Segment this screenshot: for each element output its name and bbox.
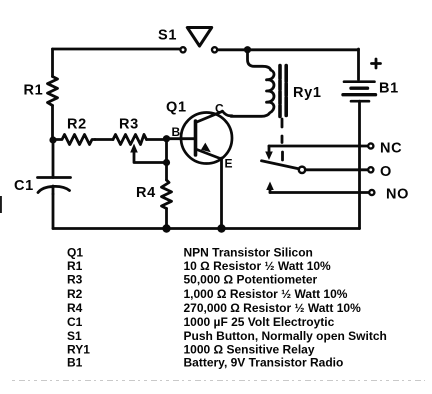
svg-text:O: O [380, 164, 392, 180]
terminal circle NC [368, 143, 373, 148]
node wiper junction [163, 159, 170, 166]
relay armature lever [262, 161, 299, 169]
svg-text:1000 µF 25 Volt Electroytic: 1000 µF 25 Volt Electroytic [184, 315, 335, 329]
relay RY1 core bar right [284, 66, 288, 119]
terminal circle NO [369, 190, 374, 195]
wire left rail mid [51, 106, 54, 141]
wire O common line [306, 168, 368, 171]
svg-text:B1: B1 [379, 81, 399, 97]
switch S1 contact circle right [212, 47, 217, 52]
scan artifact dashed line [12, 380, 425, 382]
svg-text:NO: NO [386, 187, 409, 203]
wire R4 to bottom rail [165, 209, 168, 229]
potentiometer R3 wiper arrowhead [130, 144, 138, 153]
svg-text:S1: S1 [158, 28, 177, 44]
svg-text:Q1: Q1 [166, 100, 187, 116]
wire base node to transistor [167, 137, 196, 140]
node junction R2 tap [49, 136, 56, 143]
node junction emitter bottom [217, 224, 225, 232]
wire base node down to R4 [165, 139, 168, 180]
svg-text:R3: R3 [67, 273, 83, 287]
relay armature pivot circle [299, 167, 305, 173]
wire left rail upper [51, 49, 54, 77]
svg-text:NPN Transistor Silicon: NPN Transistor Silicon [184, 245, 313, 259]
wire NC line [269, 145, 368, 148]
transistor Q1 emitter stroke [196, 149, 222, 159]
battery B1 plates [344, 80, 375, 83]
svg-text:C1: C1 [67, 315, 83, 329]
switch S1 contact circle left [180, 47, 185, 52]
capacitor C1 [38, 178, 71, 195]
svg-text:RY1: RY1 [67, 342, 90, 356]
svg-text:E: E [225, 157, 233, 171]
wire relay tap down to coil [248, 50, 271, 70]
wire right rail battery to bottom [358, 101, 361, 228]
switch S1 plunger triangle [187, 28, 211, 47]
svg-text:R1: R1 [67, 259, 83, 273]
relay RY1 coil [231, 70, 274, 116]
svg-text:R3: R3 [119, 117, 139, 133]
terminal circle O [368, 167, 373, 172]
svg-text:Push Button, Normally open Swi: Push Button, Normally open Switch [184, 329, 387, 343]
svg-text:B: B [172, 125, 181, 139]
svg-text:Battery, 9V Transistor Radio: Battery, 9V Transistor Radio [184, 356, 344, 370]
svg-text:270,000 Ω Resistor ½ Watt 10%: 270,000 Ω Resistor ½ Watt 10% [184, 301, 362, 315]
wire top rail right segment [218, 48, 359, 51]
svg-text:R1: R1 [24, 83, 44, 99]
wire battery top lead [357, 49, 360, 80]
svg-text:1,000 Ω Resistor ½ Watt 10%: 1,000 Ω Resistor ½ Watt 10% [184, 287, 348, 301]
relay RY1 actuation dashed link [281, 119, 284, 160]
potentiometer R3 wiper arm [134, 151, 164, 163]
resistor R2 [53, 135, 95, 145]
svg-text:B1: B1 [67, 356, 83, 370]
wire left rail lower [52, 194, 55, 229]
wire R3 to base node [147, 138, 167, 141]
wire collector to relay coil [223, 111, 233, 116]
svg-text:C1: C1 [14, 178, 34, 194]
svg-text:R2: R2 [67, 287, 83, 301]
wire emitter down to bottom rail [220, 158, 223, 229]
resistor R1 [48, 77, 58, 106]
svg-text:R4: R4 [136, 185, 156, 201]
svg-text:50,000 Ω Potentiometer: 50,000 Ω Potentiometer [184, 273, 318, 287]
svg-text:NC: NC [380, 141, 402, 157]
svg-text:10 Ω Resistor ½ Watt 10%: 10 Ω Resistor ½ Watt 10% [184, 259, 332, 273]
relay RY1 core bar left [278, 66, 282, 118]
svg-text:Q1: Q1 [67, 245, 83, 259]
resistor R4 [162, 180, 172, 209]
svg-text:C: C [215, 102, 224, 116]
wire top rail left segment [53, 48, 180, 51]
transistor Q1 emitter arrowhead [201, 143, 211, 153]
wire NO line [270, 191, 369, 194]
transistor Q1 base bar [194, 121, 198, 155]
node B base junction [163, 135, 170, 142]
node junction R4 bottom [162, 224, 170, 232]
transistor Q1 collector stroke [196, 111, 223, 122]
relay contact NO arm with arrowhead [269, 188, 272, 193]
svg-text:S1: S1 [67, 329, 82, 343]
battery plus sign [372, 59, 381, 68]
wire left rail to capacitor [52, 140, 55, 178]
transistor Q1 body circle [181, 113, 232, 164]
svg-text:1000 Ω Sensitive Relay: 1000 Ω Sensitive Relay [184, 342, 315, 356]
svg-text:R2: R2 [67, 117, 87, 133]
svg-text:R4: R4 [67, 301, 83, 315]
wire bottom rail [53, 227, 360, 230]
relay contact NC arm with arrowhead [268, 146, 271, 151]
scan artifact left edge mark [0, 196, 2, 213]
wire R2 to R3 [95, 138, 113, 141]
potentiometer R3 [113, 135, 147, 145]
svg-text:Ry1: Ry1 [293, 85, 322, 101]
node junction top (relay tap) [244, 46, 251, 53]
